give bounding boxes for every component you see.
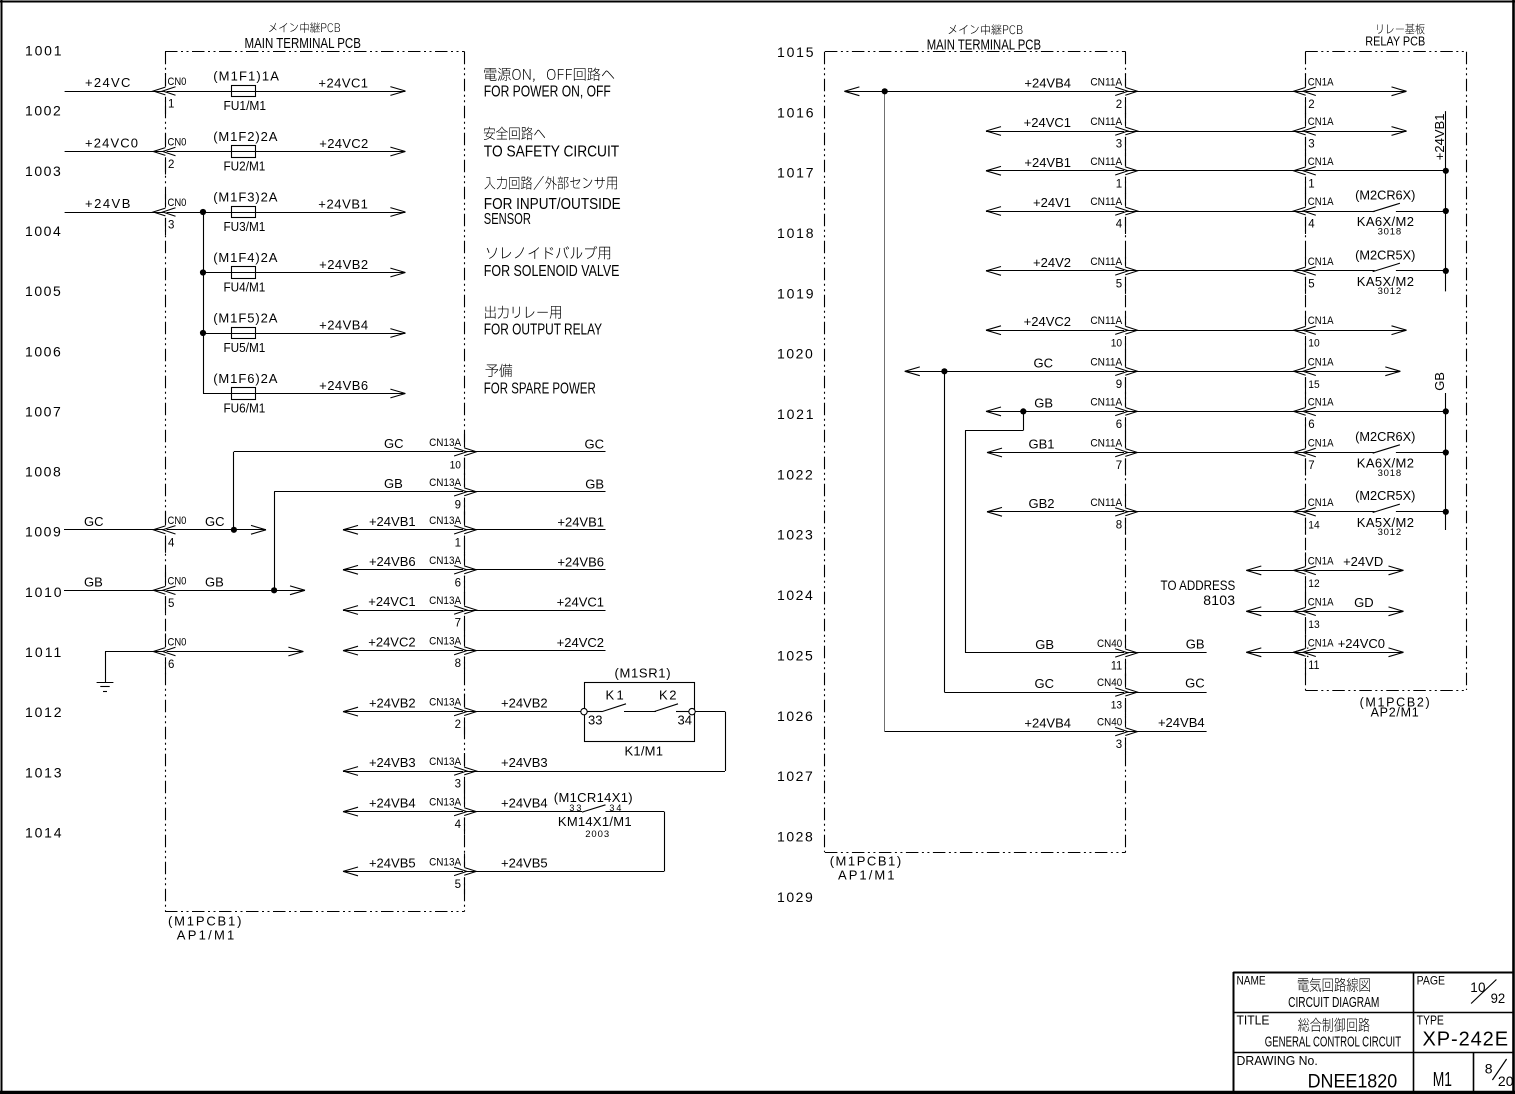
wire +24V2 (986, 267, 1126, 276)
junction on bus (1443, 449, 1449, 455)
wire stub GC in relay pcb (1305, 367, 1400, 376)
junction on bus (1443, 509, 1449, 515)
svg-text:8: 8 (1485, 1061, 1493, 1077)
solid segments of left box edge at CN13A connectors (464, 434, 466, 895)
label KA5X/M2 (1357, 274, 1415, 289)
label (M2CR5X) (1355, 247, 1415, 262)
svg-text:CN13A: CN13A (429, 757, 461, 769)
svg-text:+24VB2: +24VB2 (501, 696, 548, 711)
svg-text:4: 4 (168, 537, 175, 549)
svg-text:CN1A: CN1A (1308, 116, 1334, 128)
label 33 (588, 713, 602, 728)
svg-text:2: 2 (455, 719, 461, 731)
label GC left of CN40 (1035, 676, 1055, 691)
label GC right stub (585, 437, 605, 452)
svg-text:1009: 1009 (25, 524, 62, 540)
fuse FU6/M1 (M1F6)2A (213, 371, 278, 416)
svg-text:1001: 1001 (25, 43, 63, 59)
svg-text:SENSOR: SENSOR (484, 210, 531, 227)
label +24VC (85, 75, 132, 90)
svg-text:3012: 3012 (1378, 286, 1402, 297)
line number 1027 (777, 768, 814, 784)
title block NAME (1237, 975, 1266, 988)
svg-text:+24VB6: +24VB6 (369, 554, 416, 569)
line number 1007 (25, 403, 62, 419)
label +24VB4 (319, 318, 368, 333)
wire GB between boards (1126, 411, 1306, 413)
label K1 (606, 688, 627, 703)
svg-text:6: 6 (1116, 419, 1122, 431)
label 3018 (1378, 468, 1402, 479)
label (M1PCB1) (168, 914, 243, 929)
label +24VB4 right of CN40 (1158, 715, 1205, 730)
svg-text:CN13A: CN13A (429, 797, 461, 809)
wire M1SR1 to +24VB3 row (695, 712, 725, 772)
label +24V1 (1033, 195, 1071, 210)
svg-text:34: 34 (678, 713, 692, 728)
svg-text:+24VB1: +24VB1 (557, 514, 604, 529)
svg-text:(M1F5)2A: (M1F5)2A (213, 311, 278, 326)
svg-text:CN13A: CN13A (429, 697, 461, 709)
svg-text:1003: 1003 (25, 163, 62, 179)
junction on bus (1443, 168, 1449, 174)
svg-text:3012: 3012 (1378, 527, 1402, 538)
wire +24V1 (986, 207, 1126, 216)
svg-text:(M2CR5X): (M2CR5X) (1355, 247, 1415, 262)
wire +24VB5 from contact (465, 871, 664, 873)
wire GC row with junction (905, 367, 1126, 376)
svg-text:GB: GB (84, 574, 103, 589)
label KA5X/M2 (1357, 515, 1415, 530)
title block title japanese (1298, 1018, 1369, 1032)
svg-text:5: 5 (168, 598, 174, 610)
svg-text:15: 15 (1308, 378, 1319, 391)
junction at FU4 (200, 269, 206, 275)
title block frame (1233, 972, 1514, 1092)
svg-text:CN0: CN0 (168, 637, 187, 649)
svg-text:2: 2 (168, 159, 174, 171)
svg-text:CN1A: CN1A (1308, 497, 1334, 509)
wire +24VC1 into CN13A pin 7 (343, 606, 465, 615)
wire stub +24VC0 (1305, 648, 1403, 657)
svg-text:3: 3 (1308, 139, 1314, 151)
svg-text:CN13A: CN13A (429, 477, 461, 489)
svg-text:1024: 1024 (777, 587, 814, 603)
svg-text:+24VB4: +24VB4 (501, 796, 548, 811)
svg-text:1013: 1013 (25, 764, 63, 780)
wire GB vertical jog (965, 411, 1023, 653)
wire GB2 to contact (1305, 511, 1374, 513)
wire stub +24VC2 in relay pcb (1305, 326, 1406, 335)
label GC left of CN13A (384, 436, 404, 451)
title block DNEE1820 (1308, 1070, 1398, 1092)
svg-text:MAIN TERMINAL PCB: MAIN TERMINAL PCB (245, 35, 361, 52)
annotation solenoid valve (487, 246, 610, 260)
svg-text:KM14X1/M1: KM14X1/M1 (558, 814, 632, 829)
svg-text:11: 11 (1111, 660, 1122, 672)
wire GB row with junction (986, 407, 1126, 416)
connector CN1A pin 12 (1294, 556, 1334, 590)
svg-text:12: 12 (1308, 577, 1319, 590)
svg-text:CN0: CN0 (168, 197, 187, 209)
label (M1PCB2) (1360, 695, 1432, 709)
svg-text:+24V1: +24V1 (1033, 195, 1071, 210)
wire +24VB2 into CN13A pin 2 (343, 707, 465, 716)
wire +24VB3 into CN13A pin 3 (343, 767, 465, 776)
svg-text:NAME: NAME (1237, 975, 1266, 988)
svg-text:CN0: CN0 (168, 515, 187, 527)
svg-text:1026: 1026 (777, 708, 814, 724)
label KA6X/M2 (1357, 456, 1415, 471)
svg-text:1: 1 (1308, 178, 1314, 190)
annotation spare (486, 364, 513, 378)
svg-text:CN1A: CN1A (1308, 196, 1334, 208)
annotation output relay (485, 306, 561, 319)
title block M1 (1433, 1068, 1452, 1091)
svg-text:TO SAFETY CIRCUIT: TO SAFETY CIRCUIT (484, 144, 619, 161)
wire GB into CN0 pin 5 (64, 586, 305, 595)
label +24V2 (1033, 255, 1071, 270)
label 8103 (1203, 592, 1235, 608)
svg-text:1012: 1012 (25, 704, 63, 720)
connector CN0 pin 3 (153, 197, 186, 231)
label 34 (678, 713, 692, 728)
svg-text:+24VB2: +24VB2 (319, 257, 368, 272)
wire GD to address 8103 (1246, 607, 1305, 616)
svg-text:GC: GC (1035, 676, 1055, 691)
svg-text:4: 4 (455, 819, 462, 831)
label +24VC0 (85, 136, 139, 151)
svg-text:+24VB4: +24VB4 (319, 318, 368, 333)
label +24VB4 left of CN40 (1024, 716, 1071, 731)
svg-text:14: 14 (1308, 519, 1319, 532)
svg-text:8: 8 (455, 658, 461, 670)
svg-text:CN0: CN0 (168, 76, 187, 88)
svg-text:(M1PCB1): (M1PCB1) (830, 853, 903, 868)
label KA6X/M2 (1357, 214, 1415, 229)
line number 1005 (25, 283, 62, 299)
title block CIRCUIT DIAGRAM (1288, 993, 1379, 1011)
svg-text:CN11A: CN11A (1090, 396, 1123, 408)
svg-text:CN13A: CN13A (429, 596, 461, 608)
label +24VB6 left (369, 554, 416, 569)
label KM14X1/M1 (558, 814, 632, 829)
wire +24VB1 to bus (1305, 170, 1446, 172)
label +24VC2 left (368, 635, 415, 650)
junction GC (941, 368, 947, 374)
wire GC into CN0 pin 4 (64, 525, 266, 534)
title block PAGE (1417, 975, 1446, 988)
title block page slash (1471, 980, 1496, 1004)
svg-text:AP1/M1: AP1/M1 (177, 928, 237, 943)
title block page 10 (1470, 980, 1486, 995)
annotation FOR INPUT/OUTSIDE (484, 196, 621, 213)
junction on bus (1443, 268, 1449, 274)
wire GC between boards (1126, 371, 1306, 373)
svg-text:1: 1 (168, 99, 174, 111)
junction GC (231, 527, 237, 533)
label +24VB6 (319, 378, 368, 393)
wire +24VC2 between boards (1126, 330, 1306, 332)
svg-text:1005: 1005 (25, 283, 62, 299)
svg-text:+24VC: +24VC (85, 75, 132, 90)
svg-text:7: 7 (455, 618, 461, 630)
label K1/M1 (625, 744, 664, 759)
svg-text:34: 34 (609, 803, 623, 813)
left MAIN TERMINAL PCB boundary box (M1PCB1) (165, 52, 465, 912)
svg-text:CN40: CN40 (1097, 678, 1122, 690)
label (M1PCB1) right (830, 853, 903, 868)
ground (97, 683, 114, 692)
wire GB2 (987, 507, 1126, 516)
connector CN1A pin 4 (1294, 196, 1334, 230)
connector CN13A pin 1 (429, 515, 476, 549)
line number 1016 (777, 104, 815, 120)
label +24VB6 right (557, 554, 604, 569)
svg-text:(M1F2)2A: (M1F2)2A (213, 129, 278, 144)
wire +24VB4 to contact (465, 811, 582, 813)
annotation FOR SPARE POWER (484, 380, 596, 397)
line number 1024 (777, 587, 814, 603)
svg-text:1023: 1023 (777, 527, 814, 543)
svg-text:1006: 1006 (25, 343, 62, 359)
label AP2/M1 (1371, 705, 1420, 719)
svg-text:8103: 8103 (1203, 592, 1235, 608)
connector CN11A pin 2 (1090, 76, 1137, 111)
svg-text:+24VB5: +24VB5 (369, 855, 416, 870)
svg-text:CN0: CN0 (168, 576, 187, 588)
svg-text:GB: GB (1035, 637, 1054, 652)
wire +24VB3 from M1SR1 (465, 771, 725, 773)
wire GB1 (987, 448, 1126, 457)
label +24VB2 right (501, 696, 548, 711)
svg-text:CN1A: CN1A (1308, 597, 1334, 609)
connector CN11A pin 8 (1090, 496, 1137, 531)
svg-text:+24VC2: +24VC2 (557, 635, 604, 650)
connector CN0 pin 2 (153, 137, 186, 171)
connector CN1A pin 2 (1294, 77, 1334, 111)
label GB rotated (1432, 372, 1447, 391)
line number 1002 (25, 103, 62, 119)
annotation power on/off circuit (484, 68, 614, 82)
label 33 of KM14X1 (569, 803, 583, 813)
svg-text:1020: 1020 (777, 346, 814, 362)
wire +24VC1 (986, 127, 1126, 136)
connector CN1A pin 5 (1294, 256, 1334, 290)
svg-text:+24VB1: +24VB1 (369, 514, 416, 529)
svg-text:1016: 1016 (777, 104, 815, 120)
contact K2 terminal 34 circle (689, 708, 695, 714)
fuse FU2/M1 (M1F2)2A (213, 129, 278, 174)
svg-text:CN1A: CN1A (1308, 77, 1334, 89)
wire +24VB4 with junction (844, 87, 1125, 96)
wire to ground symbol (105, 652, 107, 683)
fuse FU1/M1 (M1F1)1A (213, 69, 280, 114)
wire ground into CN0 pin 6 (105, 647, 303, 656)
svg-text:TYPE: TYPE (1417, 1015, 1445, 1028)
junction GB (271, 587, 277, 593)
right MAIN TERMINAL PCB board title (927, 24, 1041, 53)
wire contact down to +24VB5 row (664, 812, 666, 872)
svg-text:+24VC1: +24VC1 (557, 595, 604, 610)
connector CN1A pin 14 (1294, 497, 1334, 531)
label AP1/M1 (177, 928, 237, 943)
left MAIN TERMINAL PCB board title (245, 22, 361, 51)
annotation TO SAFETY CIRCUIT (484, 144, 619, 161)
wire GC into CN40 pin 13 (944, 692, 1125, 694)
connector CN11A pin 7 (1090, 437, 1137, 472)
title block XP-242E (1423, 1028, 1510, 1050)
label +24VB1 right (557, 514, 604, 529)
wire stub +24VC1 right (465, 610, 606, 612)
svg-text:5: 5 (455, 879, 461, 891)
wire stub +24VB4 right of CN40 (1126, 731, 1207, 733)
connector CN13A pin 2 (429, 697, 476, 731)
svg-text:1018: 1018 (777, 225, 815, 241)
svg-text:1017: 1017 (777, 165, 815, 181)
connector CN40 pin 11 (1097, 638, 1137, 672)
svg-text:CN1A: CN1A (1308, 638, 1334, 650)
label GB outside (84, 574, 103, 589)
label +24VB4 left (369, 796, 416, 811)
svg-text:CN1A: CN1A (1308, 357, 1334, 369)
label 3012 (1378, 286, 1402, 297)
contact K2 (654, 704, 689, 712)
line number 1015 (777, 44, 815, 60)
svg-text:CN11A: CN11A (1090, 196, 1123, 208)
label AP1/M1 right (838, 868, 896, 883)
svg-text:FU3/M1: FU3/M1 (224, 219, 266, 234)
svg-text:K1: K1 (606, 688, 627, 703)
svg-text:K2: K2 (659, 688, 678, 703)
label GB right stub (585, 477, 604, 492)
relay contact KA5X/M2 (1373, 504, 1446, 512)
label +24VB3 right (501, 755, 548, 770)
svg-text:FU5/M1: FU5/M1 (224, 340, 266, 355)
label +24VB5 left (369, 855, 416, 870)
label +24VD (1343, 554, 1383, 569)
wire GB1 between boards (1126, 452, 1306, 454)
label (M2CR5X) (1355, 488, 1415, 503)
svg-text:+24VC2: +24VC2 (1024, 314, 1071, 329)
svg-text:FU6/M1: FU6/M1 (224, 401, 266, 416)
label +24VC1 right (557, 595, 604, 610)
svg-text:10: 10 (1470, 980, 1486, 995)
relay contact KA5X/M2 (1373, 263, 1446, 271)
label GB1 (1028, 437, 1054, 452)
svg-text:CN11A: CN11A (1090, 356, 1123, 368)
svg-text:1: 1 (455, 537, 461, 549)
svg-text:2: 2 (1116, 99, 1122, 111)
svg-text:CN40: CN40 (1097, 638, 1122, 650)
svg-text:+24VC0: +24VC0 (1338, 636, 1385, 651)
solid segments of left box edge at CN0 connectors (165, 73, 167, 675)
line number 1017 (777, 165, 815, 181)
label +24VC1 left (368, 594, 415, 609)
label GD (1354, 595, 1374, 610)
label GC outside (84, 514, 104, 529)
svg-text:+24VB1: +24VB1 (318, 197, 368, 212)
svg-text:(M1F6)2A: (M1F6)2A (213, 371, 278, 386)
wire from +24VB branch through fuse FU5 (203, 329, 405, 338)
label 3018 (1378, 226, 1402, 237)
title block GENERAL CONTROL CIRCUIT (1265, 1034, 1402, 1051)
wire +24VB4 into CN40 pin 3 (885, 731, 1126, 733)
svg-text:20: 20 (1498, 1073, 1514, 1089)
wire stub +24VC2 right (465, 650, 606, 652)
svg-text:CN11A: CN11A (1090, 496, 1123, 508)
svg-text:GC: GC (384, 436, 404, 451)
svg-text:CN1A: CN1A (1308, 156, 1334, 168)
svg-text:RELAY PCB: RELAY PCB (1365, 33, 1425, 48)
svg-text:GB2: GB2 (1028, 496, 1054, 511)
label +24VB5 right (501, 855, 548, 870)
junction GB (1020, 408, 1026, 414)
label +24VB3 left (369, 755, 416, 770)
relay contact KA6X/M2 (1373, 203, 1446, 211)
svg-text:6: 6 (455, 577, 461, 589)
connector CN11A pin 6 (1090, 396, 1137, 431)
title block TYPE (1417, 1015, 1445, 1028)
svg-text:1021: 1021 (777, 406, 815, 422)
svg-text:8: 8 (1116, 519, 1122, 531)
contact K1 (587, 704, 656, 712)
svg-text:3: 3 (168, 220, 174, 232)
svg-text:GB1: GB1 (1028, 437, 1054, 452)
connector CN11A pin 3 (1090, 116, 1137, 151)
svg-text:7: 7 (1308, 460, 1314, 472)
label (M1SR1) (615, 666, 672, 681)
wire +24VB1 into CN13A pin 1 (343, 525, 465, 534)
svg-text:+24VB4: +24VB4 (1024, 716, 1071, 731)
label GB right of CN40 (1186, 636, 1205, 651)
connector CN40 pin 3 (1097, 717, 1137, 751)
svg-text:11: 11 (1308, 660, 1319, 672)
svg-text:1014: 1014 (25, 824, 63, 840)
svg-text:2003: 2003 (585, 829, 610, 840)
title block page 92 (1491, 991, 1506, 1006)
svg-text:1027: 1027 (777, 768, 814, 784)
connector CN1A pin 13 (1294, 597, 1334, 631)
svg-text:3018: 3018 (1378, 226, 1402, 237)
connector CN0 pin 5 (153, 576, 186, 610)
svg-text:5: 5 (1116, 278, 1122, 290)
svg-text:CN1A: CN1A (1308, 316, 1334, 328)
connector CN13A pin 4 (429, 797, 476, 831)
title block name japanese (1298, 978, 1370, 992)
svg-text:GC: GC (205, 514, 225, 529)
label (M1CR14X1) (554, 790, 633, 805)
svg-text:3: 3 (455, 779, 461, 791)
svg-text:GC: GC (84, 514, 104, 529)
fuse FU3/M1 (M1F3)2A (213, 190, 278, 235)
svg-text:(M1SR1): (M1SR1) (615, 666, 672, 681)
wire stub GC right of CN13A (465, 451, 606, 453)
solid segments of right box edge at CN11A/CN40 connectors (1125, 73, 1127, 754)
relay contact KA6X/M2 (1373, 445, 1446, 453)
svg-text:33: 33 (569, 803, 583, 813)
svg-text:(M1PCB1): (M1PCB1) (168, 914, 243, 929)
label GB2 (1028, 496, 1054, 511)
svg-text:1025: 1025 (777, 647, 814, 663)
connector CN40 pin 13 (1097, 678, 1137, 712)
line number 1010 (25, 584, 63, 600)
svg-text:10: 10 (1308, 337, 1319, 350)
wire GC vertical (944, 371, 946, 692)
wire stub +24VC1 in relay pcb (1305, 127, 1406, 136)
label 3012 (1378, 527, 1402, 538)
label +24VB (85, 196, 132, 211)
